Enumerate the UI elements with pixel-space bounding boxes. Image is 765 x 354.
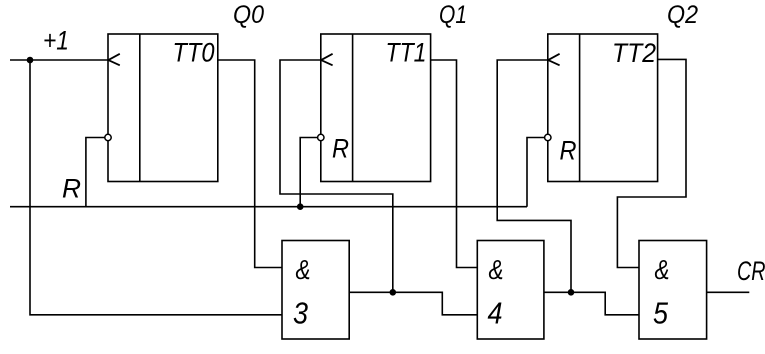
svg-text:Q0: Q0 <box>233 1 264 29</box>
junction dot at +1 node <box>27 57 34 64</box>
svg-text:&: & <box>655 254 670 285</box>
flip-flop U2 divider <box>352 34 354 182</box>
wire TT2 R input from bus corner <box>527 138 544 207</box>
wire TT2 output Q2 to gate 5 top input <box>617 59 686 267</box>
svg-text:&: & <box>489 254 504 285</box>
flip-flop U3 dynamic clock input chevron <box>548 54 560 66</box>
flip-flop U2 box TT1 <box>321 34 431 182</box>
svg-text:R: R <box>62 174 81 204</box>
junction dot TT1 R on bus <box>297 203 304 210</box>
flip-flop U3 divider <box>579 34 581 182</box>
AND gate U4 box (3) <box>282 241 349 340</box>
wire gate 3 output <box>349 292 477 315</box>
svg-text:R: R <box>332 134 349 164</box>
wire TT1 output Q1 to gate 4 top input <box>431 60 478 268</box>
svg-text:Q2: Q2 <box>667 1 698 29</box>
wire R bus <box>10 206 527 208</box>
svg-text:Q1: Q1 <box>439 1 467 29</box>
svg-text:3: 3 <box>293 296 308 331</box>
wire TT0 output Q0 to gate 3 top input <box>218 60 282 268</box>
wire +1 drop to gate 3 bottom input <box>30 60 282 315</box>
wire gate 4 output <box>544 292 639 315</box>
svg-text:TT2: TT2 <box>612 38 656 68</box>
svg-text:R: R <box>560 136 577 166</box>
wire TT1 R input <box>300 138 317 207</box>
wire TT0 R input <box>86 138 105 207</box>
wire gate 3 output branch to TT1 clock <box>280 60 393 292</box>
junction dot gate 3 output <box>390 289 397 296</box>
svg-text:+1: +1 <box>43 26 69 56</box>
inversion bubble TT2 R <box>545 134 551 140</box>
svg-text:4: 4 <box>488 296 503 331</box>
flip-flop U1 box TT0 <box>108 34 218 182</box>
AND gate U6 box (5) <box>639 241 707 340</box>
svg-text:CR: CR <box>737 256 765 286</box>
inversion bubble TT1 R <box>318 134 324 140</box>
wire +1 input to TT0 clock <box>10 59 108 61</box>
flip-flop U3 box TT2 <box>548 34 658 182</box>
inversion bubble TT0 R <box>105 134 111 140</box>
wire gate 4 output branch to TT2 clock <box>497 60 571 292</box>
flip-flop U2 dynamic clock input chevron <box>321 54 333 66</box>
svg-text:TT0: TT0 <box>173 38 215 68</box>
wire gate 5 output CR <box>707 291 750 293</box>
AND gate U5 box (4) <box>477 241 544 340</box>
flip-flop U1 divider <box>139 34 141 182</box>
svg-text:TT1: TT1 <box>386 38 427 68</box>
junction dot gate 4 output <box>568 289 575 296</box>
svg-text:5: 5 <box>653 296 669 331</box>
svg-text:&: & <box>296 254 311 285</box>
flip-flop U1 dynamic clock input chevron <box>108 54 120 66</box>
